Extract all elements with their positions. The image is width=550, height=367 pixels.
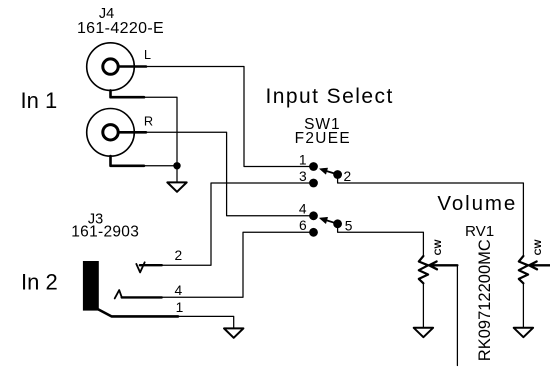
RCA jack J4 L inner circle xyxy=(103,59,118,74)
svg-text:R: R xyxy=(144,113,153,128)
ground symbol under right pot xyxy=(514,328,533,337)
phone jack J3 pin 2 contact chevron xyxy=(136,262,144,272)
RCA jack J4 R outer circle xyxy=(87,109,135,157)
svg-text:2: 2 xyxy=(175,248,183,263)
svg-text:4: 4 xyxy=(175,283,183,298)
phone jack J3 pin 1 sleeve lead xyxy=(99,310,179,317)
switch SW1 pin 1 dot xyxy=(309,162,318,171)
svg-text:Volume: Volume xyxy=(437,192,517,215)
ground symbol under J3 xyxy=(224,328,243,337)
RCA jack J4 L shell tab xyxy=(111,90,145,97)
svg-text:L: L xyxy=(144,48,151,62)
switch SW1 pin 6 dot xyxy=(309,228,318,237)
potentiometer RV1 left resistive element xyxy=(419,256,428,283)
wire J3 pin 2 to switch pin 3 xyxy=(162,183,310,265)
svg-text:1: 1 xyxy=(176,300,184,315)
phone jack J3 body xyxy=(83,261,99,311)
svg-text:F2UEE: F2UEE xyxy=(295,130,351,147)
phone jack J3 pin 4 contact chevron xyxy=(115,290,122,298)
RCA jack J4 R inner circle xyxy=(103,125,118,140)
phone jack J3 pin 2 contact bar xyxy=(140,264,162,266)
svg-text:6: 6 xyxy=(299,218,307,233)
ground symbol under left pot xyxy=(414,328,433,337)
svg-text:RK09712200MC: RK09712200MC xyxy=(476,239,494,361)
svg-text:3: 3 xyxy=(299,169,307,184)
switch SW1 pole A wiper arrow xyxy=(324,170,336,174)
wire R to switch pin 4 xyxy=(146,132,310,216)
svg-text:1: 1 xyxy=(299,152,307,167)
svg-text:Input Select: Input Select xyxy=(265,85,393,108)
RCA jack J4 R shell tab xyxy=(111,156,145,166)
wire junction to ground xyxy=(176,166,178,182)
svg-text:4: 4 xyxy=(299,202,307,217)
RCA jack J4 pin L lead xyxy=(120,65,147,68)
potentiometer RV1 right wiper arrow xyxy=(529,262,550,270)
switch SW1 pin 2 dot xyxy=(333,170,342,179)
ground symbol under J4 xyxy=(167,182,186,191)
switch SW1 pole B wiper arrow xyxy=(324,219,336,223)
wire L to switch pin 1 xyxy=(146,67,310,167)
svg-text:5: 5 xyxy=(345,219,353,234)
wire switch pin 2 to right pot xyxy=(338,178,524,256)
RCA jack J4 pin R lead xyxy=(120,131,147,134)
svg-text:RV1: RV1 xyxy=(465,223,494,240)
RCA jack J4 L outer circle xyxy=(87,43,135,91)
potentiometer RV1 right resistive element xyxy=(519,256,528,283)
potentiometer RV1 left wiper arrow xyxy=(429,262,457,270)
svg-text:CW: CW xyxy=(433,240,444,256)
svg-text:161-4220-E: 161-4220-E xyxy=(77,20,164,37)
svg-text:In 1: In 1 xyxy=(21,88,58,113)
svg-text:2: 2 xyxy=(344,169,352,184)
svg-text:CW: CW xyxy=(533,240,544,256)
wire L shell to junction xyxy=(144,97,177,166)
wire R shell to junction xyxy=(144,165,177,167)
wire switch pin 5 to left pot xyxy=(338,227,424,256)
wire left pot bottom to ground xyxy=(422,283,424,327)
switch SW1 pin 5 dot xyxy=(333,219,342,228)
svg-text:In 2: In 2 xyxy=(21,269,58,294)
wire J3 pin 1 to ground xyxy=(178,316,234,328)
junction dot J4 shells xyxy=(173,162,180,169)
wire right pot bottom to ground xyxy=(522,283,524,327)
phone jack J3 pin 4 contact bar xyxy=(122,296,162,298)
switch SW1 pin 3 dot xyxy=(309,179,318,188)
wire J3 pin 4 to switch pin 6 xyxy=(162,232,310,297)
svg-text:161-2903: 161-2903 xyxy=(71,223,139,240)
wire left pot wiper output xyxy=(456,265,458,365)
switch SW1 pin 4 dot xyxy=(309,211,318,220)
